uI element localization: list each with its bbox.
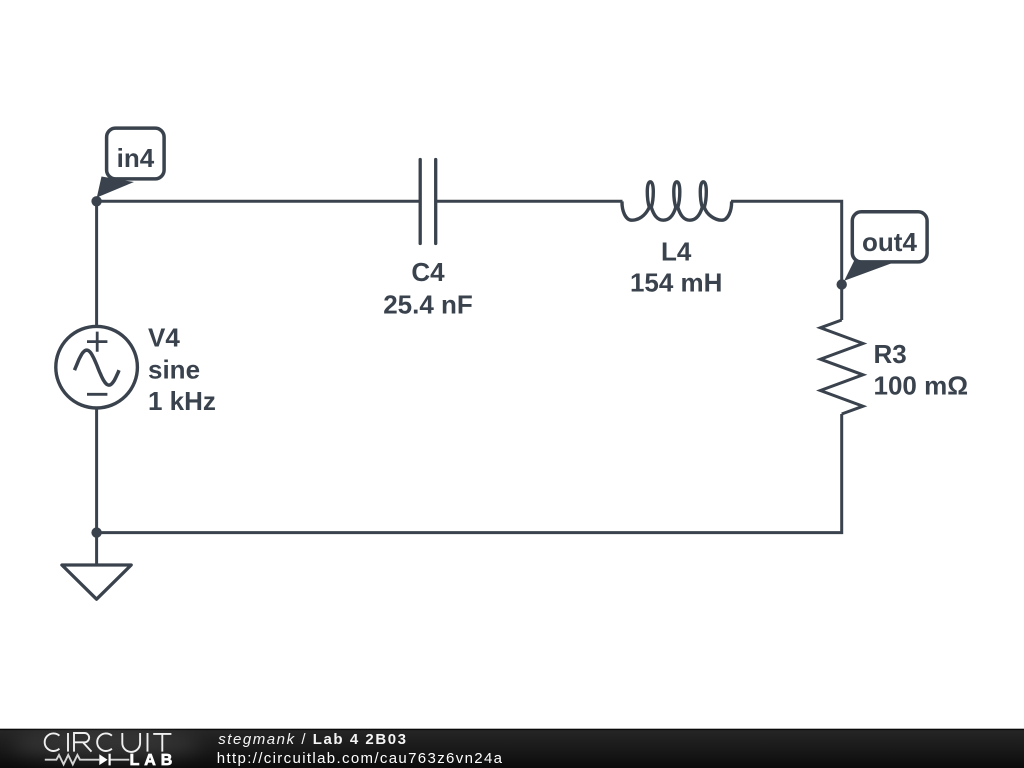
svg-text:in4: in4 — [117, 143, 155, 173]
svg-text:25.4 nF: 25.4 nF — [383, 290, 473, 320]
svg-text:LAB: LAB — [130, 752, 178, 768]
svg-text:stegmank / Lab 4 2B03: stegmank / Lab 4 2B03 — [218, 731, 407, 748]
svg-text:R3: R3 — [874, 339, 907, 369]
svg-text:1 kHz: 1 kHz — [148, 386, 216, 416]
svg-text:C4: C4 — [411, 257, 445, 287]
svg-text:L4: L4 — [661, 237, 692, 267]
svg-text:100 mΩ: 100 mΩ — [874, 371, 969, 401]
svg-text:out4: out4 — [862, 227, 917, 257]
svg-text:154 mH: 154 mH — [630, 268, 723, 298]
svg-text:http://circuitlab.com/cau763z6: http://circuitlab.com/cau763z6vn24a — [217, 750, 504, 767]
svg-text:V4: V4 — [148, 323, 180, 353]
svg-text:sine: sine — [148, 354, 200, 384]
